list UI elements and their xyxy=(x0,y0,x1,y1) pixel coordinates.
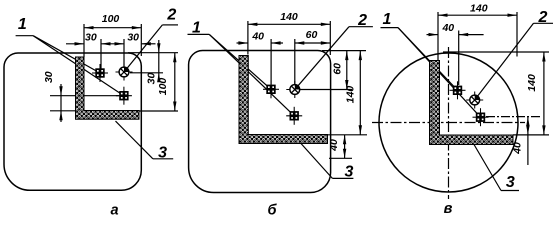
svg-text:40: 40 xyxy=(251,30,264,42)
svg-text:3: 3 xyxy=(506,174,515,191)
svg-text:а: а xyxy=(110,203,118,218)
svg-text:б: б xyxy=(268,203,278,218)
svg-text:60: 60 xyxy=(306,29,318,41)
svg-text:1: 1 xyxy=(192,20,201,37)
svg-text:100: 100 xyxy=(102,13,120,25)
svg-text:140: 140 xyxy=(470,2,488,14)
svg-text:40: 40 xyxy=(328,139,340,152)
svg-text:в: в xyxy=(444,201,453,217)
svg-text:140: 140 xyxy=(344,86,356,104)
svg-text:140: 140 xyxy=(526,74,538,92)
svg-text:3: 3 xyxy=(158,145,167,162)
svg-text:2: 2 xyxy=(357,12,367,29)
svg-text:140: 140 xyxy=(280,11,298,23)
svg-text:100: 100 xyxy=(157,78,169,96)
svg-text:60: 60 xyxy=(331,63,343,75)
svg-text:30: 30 xyxy=(85,31,97,43)
svg-text:40: 40 xyxy=(441,22,454,34)
svg-text:1: 1 xyxy=(383,11,392,28)
svg-text:30: 30 xyxy=(146,73,158,85)
svg-text:3: 3 xyxy=(344,164,353,181)
svg-text:30: 30 xyxy=(43,71,55,83)
svg-text:30: 30 xyxy=(127,31,139,43)
svg-text:1: 1 xyxy=(18,16,27,33)
svg-text:2: 2 xyxy=(538,9,548,26)
svg-text:2: 2 xyxy=(166,7,176,24)
svg-text:40: 40 xyxy=(512,142,524,155)
